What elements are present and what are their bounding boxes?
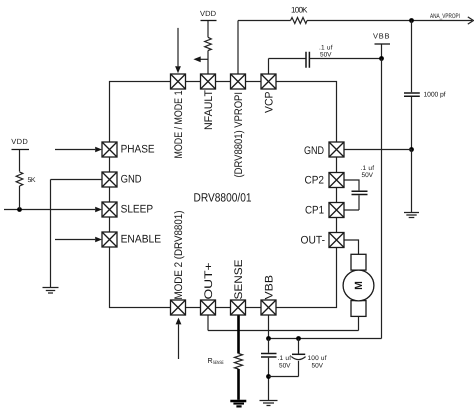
resistor R4 5K bbox=[16, 150, 36, 210]
capacitor C4 .1uf 50V (bottom) bbox=[261, 339, 291, 401]
pin CP2 bbox=[329, 173, 344, 188]
svg-text:100 uf: 100 uf bbox=[308, 355, 327, 362]
wire motor to OUT+ bbox=[208, 315, 359, 331]
node cap bottom junction bbox=[266, 374, 271, 379]
ground bottom (signal) bbox=[260, 401, 278, 406]
arrow ENABLE input bbox=[55, 237, 102, 243]
svg-text:SLEEP: SLEEP bbox=[121, 203, 154, 215]
pin MODE/MODE1 bbox=[171, 74, 186, 89]
svg-text:.1 uf: .1 uf bbox=[278, 355, 292, 362]
svg-text:DRV8800/01: DRV8800/01 bbox=[194, 191, 252, 205]
svg-text:50V: 50V bbox=[312, 362, 324, 369]
svg-text:100K: 100K bbox=[291, 5, 308, 14]
svg-text:5K: 5K bbox=[28, 177, 36, 184]
node VBB junction left bbox=[266, 336, 271, 341]
power VBB (top) bbox=[373, 31, 390, 58]
resistor R2 NFAULT pull-up bbox=[205, 37, 212, 50]
motor M1 bbox=[343, 254, 374, 316]
resistor R1 100K bbox=[291, 18, 308, 24]
svg-text:50V: 50V bbox=[279, 362, 291, 369]
pin SLEEP bbox=[102, 202, 117, 217]
wire GND left to ground bbox=[51, 180, 103, 288]
wire SLEEP input line bbox=[4, 209, 95, 211]
svg-text:CP1: CP1 bbox=[305, 205, 324, 217]
wire OUT- to motor bbox=[344, 240, 359, 254]
svg-text:VDD: VDD bbox=[200, 9, 217, 18]
pin NFAULT bbox=[201, 74, 216, 89]
svg-text:VBB: VBB bbox=[373, 31, 390, 40]
wire SENSE thick bbox=[237, 315, 240, 354]
svg-text:PHASE: PHASE bbox=[121, 143, 155, 155]
wire Rsense to power ground thick bbox=[237, 369, 240, 400]
svg-text:.1 uf: .1 uf bbox=[361, 165, 375, 172]
svg-text:NFAULT: NFAULT bbox=[203, 90, 215, 130]
svg-text:VDD: VDD bbox=[11, 137, 28, 146]
arrow MODE2 input bbox=[176, 318, 182, 359]
node VBB-VCP junction bbox=[379, 56, 384, 61]
pin GND right bbox=[329, 142, 344, 157]
pin GND left bbox=[102, 172, 117, 187]
resistor R3 Rsense bbox=[235, 354, 243, 370]
pin OUT+ bbox=[201, 300, 216, 315]
svg-text:MODE / MODE 1: MODE / MODE 1 bbox=[173, 91, 185, 159]
svg-text:.1 uf: .1 uf bbox=[319, 45, 333, 52]
svg-text:CP2: CP2 bbox=[305, 175, 325, 187]
svg-text:50V: 50V bbox=[362, 172, 374, 179]
svg-text:VCP: VCP bbox=[264, 92, 276, 114]
ground power (thick) bbox=[230, 400, 246, 403]
capacitor C1 1000 pf bbox=[404, 21, 446, 150]
node SLEEP 5K junction bbox=[17, 207, 22, 212]
node ANA_VPROPI junction bbox=[409, 18, 414, 23]
svg-text:50V: 50V bbox=[320, 52, 332, 59]
arrow PHASE input bbox=[55, 147, 102, 153]
capacitor C5 100uf 50V electrolytic bbox=[269, 339, 327, 377]
pin MODE2 bbox=[171, 300, 186, 315]
svg-text:ANA_VPROPI: ANA_VPROPI bbox=[430, 13, 460, 20]
svg-text:GND: GND bbox=[121, 173, 142, 185]
pin VCP bbox=[261, 74, 276, 89]
pin OUT- bbox=[329, 233, 344, 248]
pin ENABLE bbox=[102, 232, 117, 247]
svg-text:M: M bbox=[353, 281, 365, 290]
svg-text:ENABLE: ENABLE bbox=[121, 234, 162, 246]
pin SENSE bbox=[231, 300, 246, 315]
power VDD (left) bbox=[11, 137, 29, 149]
wire pull-up to NFAULT pin bbox=[207, 51, 209, 75]
svg-text:(DRV8801) VPROPI: (DRV8801) VPROPI bbox=[233, 92, 245, 178]
pin PHASE bbox=[102, 142, 117, 157]
op-amp U1 DRV8800/01 IC body outline bbox=[110, 82, 337, 308]
wire VPROPI riser to top rail bbox=[238, 21, 472, 75]
capacitor C3 .1uf 50V (CP2-CP1) bbox=[344, 165, 374, 210]
svg-text:1000 pf: 1000 pf bbox=[424, 92, 446, 99]
arrow NFAULT output indicator bbox=[193, 56, 208, 62]
pin VPROPI bbox=[231, 74, 246, 89]
arrow MODE/MODE1 input bbox=[175, 28, 181, 73]
node VBB junction right bbox=[296, 336, 301, 341]
arrow SLEEP input bbox=[95, 207, 102, 213]
pin CP1 bbox=[329, 203, 344, 218]
ground right bbox=[404, 213, 419, 218]
svg-text:OUT+: OUT+ bbox=[203, 263, 215, 300]
wire GND pin to ground bbox=[344, 150, 412, 213]
svg-text:OUT-: OUT- bbox=[301, 235, 326, 247]
power VDD (top) bbox=[200, 9, 217, 38]
svg-text:SENSE: SENSE bbox=[233, 260, 245, 300]
svg-text:MODE 2 (DRV8801): MODE 2 (DRV8801) bbox=[173, 211, 185, 300]
svg-text:GND: GND bbox=[304, 145, 324, 157]
node GND line junction bbox=[409, 147, 414, 152]
ground left bbox=[43, 288, 59, 294]
wire VBB rail down and to bottom VBB pin bbox=[269, 59, 382, 339]
pin VBB bottom bbox=[261, 300, 276, 315]
net label ANA_VPROPI with off-page arrow bbox=[430, 13, 474, 24]
capacitor C2 .1uf 50V (VCP to VBB) bbox=[269, 45, 382, 75]
svg-text:VBB: VBB bbox=[264, 275, 276, 300]
wire VBB bottom riser bbox=[268, 315, 270, 339]
